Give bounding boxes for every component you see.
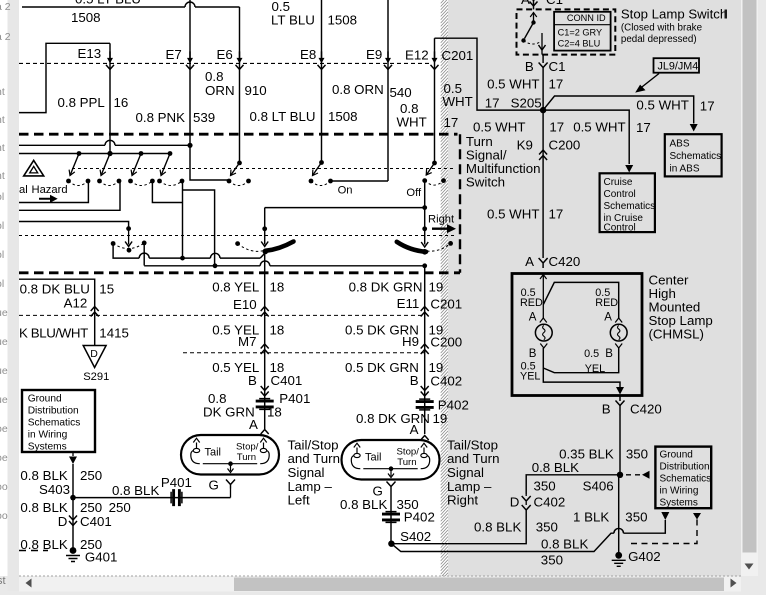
svg-text:Turn: Turn xyxy=(237,452,256,463)
svg-text:Hazard: Hazard xyxy=(32,184,68,196)
node E6 chevrons xyxy=(239,51,241,59)
svg-text:A12: A12 xyxy=(64,296,88,311)
arrow from box down xyxy=(72,452,74,456)
svg-text:A: A xyxy=(249,417,258,432)
svg-text:D: D xyxy=(90,348,98,360)
svg-text:nt: nt xyxy=(0,114,5,126)
dashed connector line C201 top (y=63) xyxy=(19,62,430,64)
box CHMSL xyxy=(512,274,642,396)
svg-text:C201: C201 xyxy=(430,297,462,312)
svg-text:S402: S402 xyxy=(400,529,431,544)
svg-text:E9: E9 xyxy=(366,47,382,62)
wire bus1 y=145.3 xyxy=(19,144,190,146)
svg-text:K BLU/WHT: K BLU/WHT xyxy=(19,326,88,341)
svg-text:E6: E6 xyxy=(217,47,233,62)
svg-text:JL9/JM4: JL9/JM4 xyxy=(658,61,699,73)
svg-text:17: 17 xyxy=(636,120,651,135)
svg-text:On: On xyxy=(338,185,353,197)
node E8 chevrons xyxy=(321,51,323,59)
svg-text:C201: C201 xyxy=(442,48,474,63)
node wiper1 center contact xyxy=(127,248,132,253)
wire S205 to cruise control xyxy=(543,110,629,164)
svg-text:C1: C1 xyxy=(546,0,563,7)
node H9 chevrons xyxy=(421,344,429,354)
svg-text:18: 18 xyxy=(270,280,285,295)
svg-text:ue: ue xyxy=(0,336,8,348)
node E7 chevrons xyxy=(189,51,191,59)
svg-text:M7: M7 xyxy=(238,334,256,349)
connector P402 inline xyxy=(416,399,434,410)
wire S403 column xyxy=(72,464,74,551)
lamp left (CHMSL) xyxy=(540,318,547,323)
wire E12/C201 column xyxy=(434,38,436,163)
wire E13 feeder from left xyxy=(19,43,110,112)
wire DK GRN column (right lamp) xyxy=(424,266,426,434)
svg-text:18: 18 xyxy=(267,405,282,420)
svg-text:1508: 1508 xyxy=(328,13,358,28)
node A12 chevrons xyxy=(91,307,99,317)
svg-text:Schematics: Schematics xyxy=(28,418,81,429)
svg-text:Tail: Tail xyxy=(205,447,222,459)
svg-text:WHT: WHT xyxy=(397,115,427,130)
wire bus2 y=153.5 xyxy=(19,153,170,155)
svg-text:E11: E11 xyxy=(397,296,420,311)
svg-text:K9: K9 xyxy=(517,138,533,153)
svg-text:250: 250 xyxy=(80,500,102,515)
svg-text:16: 16 xyxy=(114,95,129,110)
svg-text:350: 350 xyxy=(536,520,558,535)
svg-text:0.5 DK GRN: 0.5 DK GRN xyxy=(345,360,419,375)
wire switch output to S205 xyxy=(542,55,544,63)
wire S205 down to CHMSL xyxy=(542,110,544,258)
svg-text:Right: Right xyxy=(447,493,478,508)
node C1 pin A chevrons (cut) xyxy=(530,0,538,6)
node wiper3 contact xyxy=(422,249,428,255)
connector P402 inline xyxy=(382,512,400,523)
svg-text:0.8 BLK: 0.8 BLK xyxy=(541,537,588,552)
svg-text:oe: oe xyxy=(0,423,8,435)
node lamp A entry chevron xyxy=(261,430,269,435)
svg-text:0.8 YEL: 0.8 YEL xyxy=(212,280,259,295)
svg-text:pedal depressed): pedal depressed) xyxy=(621,34,697,45)
wire right lamp G to S402 xyxy=(390,491,392,544)
svg-text:nt: nt xyxy=(0,142,5,154)
wire S402 to ground box arrow xyxy=(391,520,665,552)
svg-text:E7: E7 xyxy=(166,47,182,62)
svg-text:17: 17 xyxy=(549,120,564,135)
svg-text:C401: C401 xyxy=(80,514,112,529)
svg-text:350: 350 xyxy=(534,479,556,494)
node S402 junction xyxy=(388,541,394,547)
switch pole 6 (E8, On) xyxy=(319,160,324,165)
hazard warning triangle symbol xyxy=(24,160,44,176)
svg-text:C401: C401 xyxy=(271,373,303,388)
svg-text:B: B xyxy=(410,373,419,388)
node S406 junction xyxy=(617,472,623,478)
svg-text:Distribution: Distribution xyxy=(28,406,79,417)
wire CHMSL entry xyxy=(542,274,544,319)
wire E7 column xyxy=(189,0,191,145)
bottom dotted container border xyxy=(19,575,741,577)
ground G401 xyxy=(70,547,77,554)
svg-text:Switch: Switch xyxy=(466,175,505,190)
wire bridge to bus3 xyxy=(183,190,215,266)
node wiper3 feed junctions xyxy=(422,205,427,210)
svg-text:RED: RED xyxy=(520,297,543,309)
svg-text:C402: C402 xyxy=(534,495,566,510)
tail/stop lamp assembly left xyxy=(181,435,279,475)
svg-text:a 2: a 2 xyxy=(0,31,11,43)
svg-text:0.5 WHT: 0.5 WHT xyxy=(473,120,525,135)
svg-text:D: D xyxy=(58,514,68,529)
wire bus3 hop over YEL column xyxy=(260,261,270,266)
svg-text:LT BLU: LT BLU xyxy=(271,13,315,28)
box JL9/JM4 xyxy=(654,58,700,72)
node lamp A entry chevron xyxy=(421,436,429,441)
turn signal switch dashed border right xyxy=(459,134,461,273)
svg-text:Signal: Signal xyxy=(288,465,325,480)
svg-text:Distribution: Distribution xyxy=(660,462,710,473)
node wiper2 feed xyxy=(262,226,267,231)
svg-text:oo: oo xyxy=(0,481,8,493)
svg-text:18: 18 xyxy=(270,323,285,338)
wire S406 to C402-D xyxy=(526,475,620,494)
svg-text:Off: Off xyxy=(406,187,422,199)
hazard arrow xyxy=(39,195,58,203)
svg-text:350: 350 xyxy=(626,447,648,462)
wire CHMSL B output xyxy=(619,396,621,402)
node B/C1 chevron xyxy=(539,63,548,68)
wire E13 column xyxy=(109,43,111,153)
svg-text:Ground: Ground xyxy=(28,394,62,405)
svg-text:350: 350 xyxy=(541,553,563,568)
svg-text:ol: ol xyxy=(0,220,4,232)
svg-text:A: A xyxy=(410,422,419,437)
svg-text:B: B xyxy=(525,59,534,74)
wire C402-D down and left to S402 xyxy=(391,513,526,544)
wiper2 alternate contact dot and dashed arc xyxy=(235,241,240,246)
svg-text:ol: ol xyxy=(0,191,4,203)
turn signal switch dashed border bottom xyxy=(19,271,460,274)
node K9/C200 chevrons xyxy=(539,150,547,160)
right-turn arrow xyxy=(432,224,456,233)
svg-text:B: B xyxy=(248,373,257,388)
node E9 chevrons xyxy=(387,51,389,59)
svg-text:C1: C1 xyxy=(549,59,566,74)
svg-text:0.8 DK GRN: 0.8 DK GRN xyxy=(349,280,423,295)
switch pole 3 xyxy=(139,151,144,156)
node A/C420 chevron xyxy=(539,258,548,268)
svg-text:0.8 BLK: 0.8 BLK xyxy=(474,520,521,535)
node bus3/x215 junction xyxy=(213,263,218,268)
svg-text:250: 250 xyxy=(80,468,102,483)
stop lamp switch dashed box xyxy=(517,9,616,54)
svg-text:Schematics: Schematics xyxy=(670,151,722,162)
wire inner top branch xyxy=(543,282,618,318)
svg-text:ABS: ABS xyxy=(670,139,690,150)
wire pole3 right contact drop xyxy=(152,181,182,203)
svg-text:0.8 BLK: 0.8 BLK xyxy=(340,497,387,512)
wire pole2 right contact drop xyxy=(19,181,120,210)
wire bus3 y=265.8 xyxy=(144,265,425,267)
wiper3 alternate contact dot and dashed arc xyxy=(448,241,453,246)
wire E6 column xyxy=(239,7,241,163)
switch pole 4 xyxy=(168,151,173,156)
svg-text:al: al xyxy=(19,184,28,196)
wire pole1 right contact drop xyxy=(19,181,88,203)
svg-text:C2=4 BLU: C2=4 BLU xyxy=(558,39,601,49)
svg-text:Schematics: Schematics xyxy=(604,201,656,212)
node B/C402 chevrons xyxy=(421,386,429,396)
svg-text:ol: ol xyxy=(0,249,4,261)
svg-text:oe: oe xyxy=(0,452,8,464)
node S403 junction xyxy=(70,495,76,501)
wire top horizontal 0.5 LT BLU bus y=7 xyxy=(22,6,240,8)
svg-text:in ABS: in ABS xyxy=(670,164,700,175)
svg-text:in Wiring: in Wiring xyxy=(28,430,68,441)
wire On contact to E9 xyxy=(331,180,388,182)
svg-text:1508: 1508 xyxy=(71,10,101,25)
svg-text:0.5 WHT: 0.5 WHT xyxy=(487,77,539,92)
box ABS Schematics in ABS xyxy=(665,134,722,176)
svg-text:C420: C420 xyxy=(630,402,662,417)
svg-text:17: 17 xyxy=(444,115,459,130)
conn id box xyxy=(554,12,611,51)
svg-text:S205: S205 xyxy=(511,96,542,111)
svg-text:C402: C402 xyxy=(430,374,462,389)
wire wiper2 arrow xyxy=(264,229,266,245)
svg-text:ORN: ORN xyxy=(205,83,235,98)
wire wiper2 feed horizontal from Off pole xyxy=(265,207,425,209)
svg-text:(Closed with brake: (Closed with brake xyxy=(621,23,703,34)
svg-text:st: st xyxy=(0,575,6,587)
svg-text:0.8 LT BLU: 0.8 LT BLU xyxy=(250,109,316,124)
connector P401 inline xyxy=(256,399,274,410)
svg-text:540: 540 xyxy=(390,85,412,100)
node G pin chevron (right lamp) xyxy=(387,482,396,491)
svg-text:in Wiring: in Wiring xyxy=(660,486,699,497)
svg-text:E8: E8 xyxy=(300,47,316,62)
svg-text:0.8 PNK: 0.8 PNK xyxy=(136,110,186,125)
wiper1 contacts and dashed arc xyxy=(111,241,116,246)
svg-text:E13: E13 xyxy=(78,46,102,61)
switch pole 5 (E6) xyxy=(237,161,242,166)
svg-text:C420: C420 xyxy=(549,254,581,269)
vertical scrollbar xyxy=(741,0,758,576)
svg-text:a 2: a 2 xyxy=(0,1,11,13)
svg-text:C1=2 GRY: C1=2 GRY xyxy=(558,28,603,38)
svg-text:D: D xyxy=(510,495,520,510)
svg-text:and Turn: and Turn xyxy=(447,451,500,466)
svg-text:0.5 WHT: 0.5 WHT xyxy=(573,120,625,135)
box Ground Distribution Schematics (right) xyxy=(655,447,711,509)
svg-text:G402: G402 xyxy=(628,549,661,564)
switch pole 7 (E12, Off) xyxy=(432,161,437,166)
svg-text:1508: 1508 xyxy=(328,109,358,124)
wire S406 to G402 xyxy=(619,474,620,476)
svg-text:P401: P401 xyxy=(279,391,310,406)
svg-text:E10: E10 xyxy=(233,297,257,312)
stop lamp switch contacts xyxy=(533,13,535,23)
svg-text:0.8 DK BLU: 0.8 DK BLU xyxy=(20,282,90,297)
node G pin chevron (left lamp) xyxy=(226,480,235,489)
svg-text:P401: P401 xyxy=(161,475,192,490)
svg-text:1415: 1415 xyxy=(99,326,129,341)
svg-text:YEL: YEL xyxy=(520,371,540,383)
svg-text:A: A xyxy=(529,312,537,324)
wire CHMSL bottom xyxy=(543,348,620,387)
node D/C402 chevrons xyxy=(522,496,531,501)
dashed connector line C201 (y=315.4) xyxy=(19,314,425,316)
dashed drop from ground box to G402 xyxy=(693,513,701,520)
svg-text:Lamp –: Lamp – xyxy=(447,479,492,494)
svg-text:nt: nt xyxy=(0,170,5,182)
wiper2 thick contact blade xyxy=(265,242,293,251)
dashed stub left of G401 xyxy=(19,550,48,552)
svg-text:0.8 BLK: 0.8 BLK xyxy=(532,460,579,475)
box Cruise Control Schematics in Cruise Control xyxy=(600,173,655,232)
svg-text:CONN ID: CONN ID xyxy=(567,13,606,23)
wire YEL column (left lamp) xyxy=(264,252,266,430)
node wiper1 feed xyxy=(126,226,131,231)
svg-text:Left: Left xyxy=(288,493,310,508)
box Ground Distribution Schematics (left) xyxy=(22,390,95,452)
wire S205 to ABS xyxy=(543,96,694,124)
svg-text:B: B xyxy=(605,348,613,360)
svg-text:17: 17 xyxy=(549,207,564,222)
switch pole 1 (hazard) xyxy=(77,151,82,156)
svg-text:19: 19 xyxy=(429,280,444,295)
svg-text:17: 17 xyxy=(549,77,564,92)
svg-text:oo: oo xyxy=(0,510,8,522)
svg-text:C200: C200 xyxy=(430,335,462,350)
ground G402 xyxy=(615,552,622,559)
dashed mechanical linkage line upper xyxy=(72,168,455,170)
node S205 junction xyxy=(540,107,546,113)
splice pack triangle S291 (D) xyxy=(83,346,106,368)
wire stop-lamp feed corner (C201 to S205) xyxy=(435,38,544,110)
wire Off pole contact drop (x=424.7) xyxy=(424,181,426,245)
svg-text:ol: ol xyxy=(0,278,4,290)
wire wiper2 feed vertical xyxy=(264,208,266,229)
wiper3 thick contact blade xyxy=(397,242,426,252)
svg-text:G401: G401 xyxy=(85,550,118,565)
svg-text:ue: ue xyxy=(0,307,8,319)
svg-text:nt: nt xyxy=(0,86,5,98)
turn signal switch dashed border top xyxy=(19,133,458,136)
svg-text:E12: E12 xyxy=(405,48,429,63)
svg-text:17: 17 xyxy=(485,96,500,111)
svg-text:B: B xyxy=(602,402,611,417)
svg-text:A: A xyxy=(525,254,534,269)
svg-text:Systems: Systems xyxy=(660,498,698,509)
svg-text:0.5: 0.5 xyxy=(584,348,599,360)
wire wiper1 feed arrow xyxy=(128,229,130,245)
node bus3 / DK GRN column xyxy=(422,263,427,268)
svg-text:RED: RED xyxy=(595,297,618,309)
svg-text:1 BLK: 1 BLK xyxy=(573,510,609,525)
svg-text:ue: ue xyxy=(0,394,8,406)
svg-text:Turn: Turn xyxy=(397,457,416,468)
svg-text:H9: H9 xyxy=(402,334,419,349)
node B/C401 chevrons xyxy=(261,386,269,396)
wire wiper1 left contact drop to mid bus xyxy=(113,244,260,259)
svg-text:G: G xyxy=(209,478,219,493)
svg-text:DK GRN: DK GRN xyxy=(203,405,255,420)
svg-text:A: A xyxy=(521,0,530,7)
left UI sliver strip xyxy=(8,0,20,591)
node on mid bus xyxy=(180,256,185,261)
svg-text:Ground: Ground xyxy=(660,450,693,461)
svg-text:YEL: YEL xyxy=(585,363,605,375)
small artifact near scrollbar top xyxy=(725,10,728,19)
svg-text:and Turn: and Turn xyxy=(288,451,341,466)
svg-text:539: 539 xyxy=(193,110,215,125)
svg-text:15: 15 xyxy=(99,282,114,297)
dashed mechanical linkage line lower xyxy=(19,235,455,237)
dashed connector line C200 (y=352.8) xyxy=(183,352,425,354)
node D/C401 chevrons xyxy=(69,516,77,526)
svg-text:ue: ue xyxy=(0,365,8,377)
horizontal scrollbar xyxy=(19,577,741,592)
svg-text:910: 910 xyxy=(245,83,267,98)
svg-text:0.8 BLK: 0.8 BLK xyxy=(112,483,159,498)
svg-text:S406: S406 xyxy=(583,479,614,494)
svg-text:250: 250 xyxy=(109,500,131,515)
node wiper2 contact xyxy=(263,249,269,255)
node E12 chevrons xyxy=(434,51,436,59)
dashed reference arrow from ground box to S406 xyxy=(626,474,641,476)
svg-text:Stop Lamp Switch: Stop Lamp Switch xyxy=(621,7,727,22)
svg-text:350: 350 xyxy=(625,510,647,525)
svg-text:Tail: Tail xyxy=(365,452,382,464)
connector P401 inline (horizontal wire) xyxy=(171,489,182,506)
switch pole 2 xyxy=(108,151,113,156)
svg-text:0.8 BLK: 0.8 BLK xyxy=(20,468,67,483)
node E13 connector chevrons xyxy=(109,51,111,59)
tail/stop lamp assembly right xyxy=(342,440,440,480)
wire hop over E13 column xyxy=(105,140,115,145)
node E13/bus2 junction xyxy=(107,151,112,156)
wire DK BLU feeder from left xyxy=(19,279,95,345)
wire E8 column xyxy=(321,0,323,163)
hatched page edge band xyxy=(441,0,448,587)
svg-text:Schematics: Schematics xyxy=(660,474,712,485)
svg-text:0.5 WHT: 0.5 WHT xyxy=(636,98,688,113)
svg-text:0.8 ORN: 0.8 ORN xyxy=(332,82,384,97)
node E11 chevrons xyxy=(421,307,429,317)
svg-text:Lamp –: Lamp – xyxy=(288,479,333,494)
svg-text:0.5 WHT: 0.5 WHT xyxy=(487,207,539,222)
svg-text:A: A xyxy=(604,312,612,324)
svg-text:(CHMSL): (CHMSL) xyxy=(649,327,704,342)
svg-text:P402: P402 xyxy=(404,510,435,525)
arrow JL9/JM4 to wire xyxy=(640,74,659,89)
svg-text:0.8 DK GRN: 0.8 DK GRN xyxy=(356,411,430,426)
wire pole4 right contact drop xyxy=(182,181,184,258)
svg-text:S403: S403 xyxy=(39,482,70,497)
node M7 chevrons xyxy=(261,344,269,354)
wire wiper1 right contact drop to bus3 xyxy=(143,243,145,266)
svg-text:Right: Right xyxy=(428,214,455,226)
wire S403 to left lamp G xyxy=(73,497,231,499)
svg-text:Control: Control xyxy=(604,189,636,200)
svg-text:0.8: 0.8 xyxy=(205,69,224,84)
wire hop over x=144 xyxy=(139,253,149,258)
node E10 chevrons xyxy=(261,307,269,317)
svg-text:0.8 BLK: 0.8 BLK xyxy=(20,537,67,552)
svg-text:0.8 BLK: 0.8 BLK xyxy=(20,500,67,515)
